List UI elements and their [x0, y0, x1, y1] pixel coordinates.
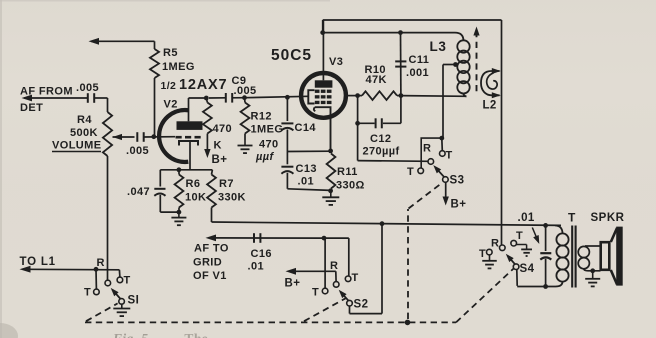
svg-text:VOLUME: VOLUME	[52, 140, 101, 152]
svg-text:330K: 330K	[218, 192, 246, 204]
svg-text:OF V1: OF V1	[193, 270, 227, 282]
svg-text:.005: .005	[126, 145, 149, 157]
svg-text:T: T	[516, 230, 523, 242]
svg-text:T: T	[568, 211, 576, 225]
svg-text:270µµf: 270µµf	[363, 146, 400, 158]
svg-text:.01: .01	[248, 261, 265, 273]
svg-text:R4: R4	[77, 114, 92, 126]
svg-text:T: T	[479, 248, 486, 260]
svg-text:TO L1: TO L1	[20, 256, 56, 268]
svg-text:B+: B+	[451, 199, 467, 211]
svg-text:.01: .01	[298, 176, 315, 188]
svg-text:R6: R6	[186, 178, 201, 190]
svg-text:1MEG: 1MEG	[251, 124, 284, 136]
svg-text:µµf: µµf	[255, 151, 274, 163]
svg-text:1MEG: 1MEG	[162, 61, 195, 73]
svg-text:500K: 500K	[70, 127, 98, 139]
svg-text:.005: .005	[234, 85, 257, 97]
svg-text:S3: S3	[450, 175, 465, 187]
svg-text:R5: R5	[163, 47, 178, 59]
svg-text:GRID: GRID	[193, 257, 222, 269]
svg-text:L2: L2	[483, 100, 497, 112]
svg-text:S2: S2	[354, 299, 369, 311]
svg-text:470: 470	[259, 139, 279, 151]
svg-text:T: T	[84, 287, 91, 299]
svg-text:R: R	[330, 260, 338, 272]
svg-text:C11: C11	[409, 54, 430, 66]
svg-text:.001: .001	[406, 67, 429, 79]
svg-text:B+: B+	[212, 154, 228, 166]
svg-text:1/2: 1/2	[161, 80, 177, 92]
svg-text:L3: L3	[430, 39, 447, 54]
svg-text:R: R	[97, 257, 105, 269]
svg-text:T: T	[407, 166, 414, 178]
svg-text:330Ω: 330Ω	[336, 180, 365, 192]
svg-text:— The: — The	[166, 331, 208, 338]
svg-text:AF FROM: AF FROM	[20, 86, 73, 98]
svg-text:V3: V3	[329, 56, 343, 68]
svg-text:R7: R7	[219, 178, 234, 190]
svg-text:R: R	[491, 238, 499, 250]
svg-text:K: K	[214, 140, 222, 152]
svg-text:T: T	[312, 287, 319, 299]
svg-text:AF TO: AF TO	[194, 243, 229, 255]
svg-text:Fig. 5: Fig. 5	[112, 331, 148, 338]
svg-text:.047: .047	[127, 186, 150, 198]
svg-text:C14: C14	[295, 122, 317, 134]
svg-text:47K: 47K	[366, 74, 387, 86]
svg-text:12AX7: 12AX7	[179, 77, 227, 93]
svg-text:B+: B+	[285, 278, 301, 290]
svg-text:T: T	[446, 150, 453, 162]
svg-text:50C5: 50C5	[271, 47, 312, 64]
svg-text:C13: C13	[296, 163, 317, 175]
svg-text:DET: DET	[20, 102, 43, 114]
svg-text:R12: R12	[251, 111, 272, 123]
svg-text:SI: SI	[128, 295, 140, 307]
svg-text:470: 470	[213, 123, 233, 135]
svg-text:C16: C16	[251, 248, 272, 260]
svg-text:V2: V2	[164, 99, 178, 111]
svg-text:.005: .005	[76, 82, 99, 94]
svg-text:.01: .01	[518, 212, 535, 224]
svg-text:R: R	[423, 143, 431, 155]
svg-text:SPKR: SPKR	[591, 212, 625, 224]
svg-text:10K: 10K	[185, 192, 206, 204]
svg-text:R11: R11	[337, 166, 358, 178]
svg-text:C12: C12	[370, 133, 391, 145]
svg-text:S4: S4	[520, 263, 535, 275]
svg-text:T: T	[352, 272, 359, 284]
svg-text:T: T	[124, 275, 131, 287]
